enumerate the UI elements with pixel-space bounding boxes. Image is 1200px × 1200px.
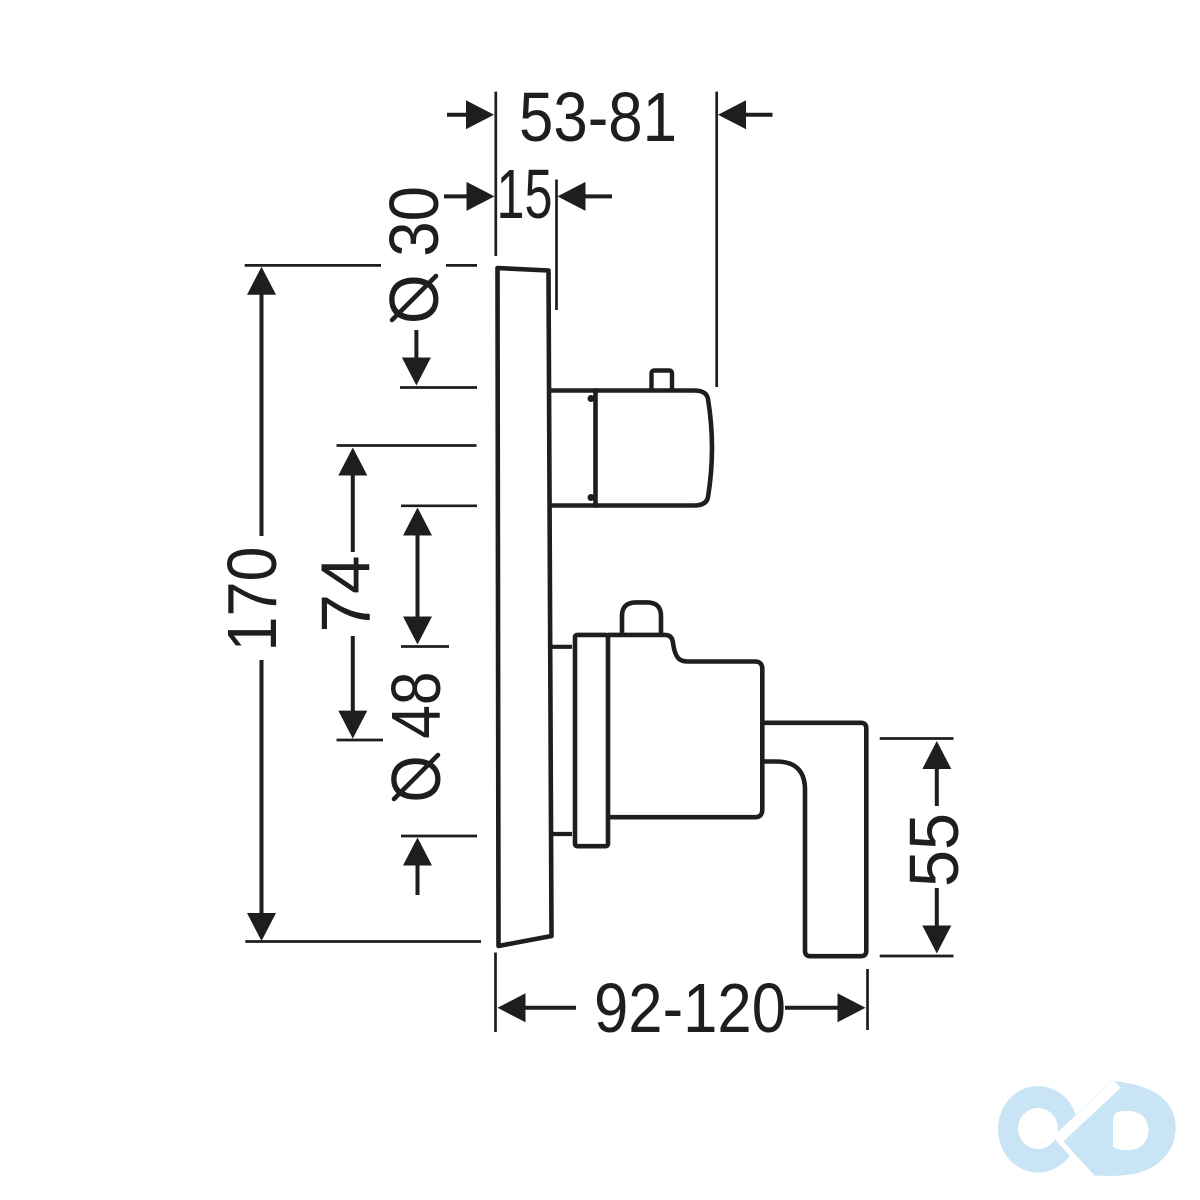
svg-text:15: 15 [497,155,553,233]
svg-text:55: 55 [895,813,973,887]
svg-text:92-120: 92-120 [594,969,786,1047]
svg-text:170: 170 [213,547,291,652]
svg-text:O 30: O 30 [375,186,453,324]
svg-text:53-81: 53-81 [519,78,677,156]
svg-text:74: 74 [307,556,385,633]
svg-text:O 48: O 48 [377,672,455,803]
